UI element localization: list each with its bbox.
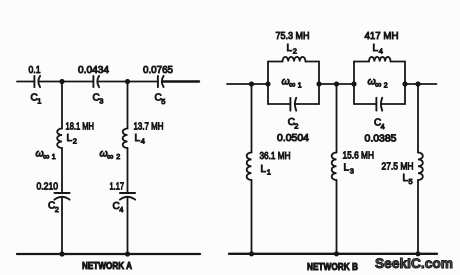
- svg-text:36.1 MH: 36.1 MH: [260, 151, 291, 162]
- svg-text:2: 2: [384, 82, 388, 89]
- svg-text:∞: ∞: [43, 151, 49, 161]
- svg-text:0.0385: 0.0385: [365, 134, 397, 145]
- svg-text:417 MH: 417 MH: [365, 31, 399, 42]
- svg-text:4: 4: [379, 47, 383, 56]
- svg-text:4: 4: [119, 205, 123, 214]
- svg-text:1: 1: [52, 154, 56, 161]
- svg-text:2: 2: [293, 47, 297, 56]
- svg-text:2: 2: [116, 154, 120, 161]
- svg-text:NETWORK A: NETWORK A: [82, 261, 132, 272]
- svg-text:NETWORK B: NETWORK B: [307, 262, 358, 273]
- svg-text:3: 3: [350, 166, 354, 175]
- svg-text:L: L: [135, 133, 141, 144]
- svg-text:1: 1: [267, 168, 271, 177]
- svg-text:∞: ∞: [107, 151, 113, 161]
- svg-text:5: 5: [161, 97, 165, 106]
- svg-text:L: L: [261, 164, 267, 175]
- svg-text:1.17: 1.17: [110, 181, 125, 192]
- svg-text:SeekIC.com: SeekIC.com: [375, 255, 453, 271]
- svg-text:2: 2: [294, 121, 298, 130]
- svg-text:15.6 MH: 15.6 MH: [343, 151, 375, 162]
- svg-text:1: 1: [298, 82, 302, 89]
- svg-text:L: L: [67, 133, 73, 144]
- svg-text:0.210: 0.210: [37, 181, 59, 192]
- svg-text:L: L: [287, 43, 293, 54]
- svg-text:0.0504: 0.0504: [277, 133, 309, 144]
- svg-text:2: 2: [73, 137, 77, 146]
- svg-text:2: 2: [55, 205, 59, 214]
- svg-text:18.1 MH: 18.1 MH: [66, 121, 95, 132]
- svg-text:75.3 MH: 75.3 MH: [276, 31, 310, 42]
- svg-text:L: L: [344, 163, 350, 174]
- svg-text:∞: ∞: [375, 80, 381, 90]
- svg-text:1: 1: [37, 97, 41, 106]
- svg-text:0.0765: 0.0765: [143, 65, 173, 76]
- svg-text:3: 3: [99, 97, 103, 106]
- svg-text:4: 4: [141, 137, 145, 146]
- svg-text:0.0434: 0.0434: [78, 65, 109, 76]
- svg-text:4: 4: [381, 122, 385, 131]
- svg-text:13.7 MH: 13.7 MH: [134, 121, 164, 132]
- svg-text:5: 5: [409, 177, 413, 186]
- svg-text:L: L: [373, 43, 379, 54]
- svg-text:27.5 MH: 27.5 MH: [382, 162, 414, 173]
- svg-text:0.1: 0.1: [29, 65, 41, 76]
- svg-text:∞: ∞: [289, 80, 295, 90]
